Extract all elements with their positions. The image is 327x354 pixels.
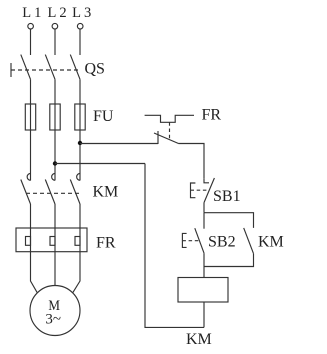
wire KM to FR pole 2 (54, 204, 56, 228)
wire KM aux to bottom junction (204, 254, 254, 267)
pushbutton SB1 fixed contact hook (204, 179, 209, 183)
wire junction to KM aux branch top (204, 213, 254, 228)
terminal L2 (52, 23, 58, 29)
wire FR to motor pole 1 (31, 228, 38, 293)
coil KM (178, 278, 228, 303)
thermal relay FR heater 3 (75, 237, 80, 246)
wire FU to KM pole 2 (54, 104, 56, 180)
wire FR contact to SB1 (179, 144, 205, 179)
svg-text:KM: KM (186, 331, 212, 348)
svg-text:L 2: L 2 (47, 5, 66, 21)
thermal relay FR contact blade (154, 133, 179, 144)
wire SB1 to junction (203, 203, 205, 213)
svg-text:L 1: L 1 (22, 5, 41, 21)
wire coil KM to bottom rail (203, 302, 205, 327)
svg-text:KM: KM (258, 234, 284, 251)
wire SB2 to bottom junction (203, 253, 205, 266)
wire QS to FU pole 2 (54, 79, 56, 104)
contactor KM main contact 1 arc (27, 173, 30, 180)
terminal L3 (77, 23, 83, 29)
svg-text:FR: FR (202, 107, 222, 124)
pushbutton SB2 actuator bracket (182, 233, 186, 247)
svg-text:L 3: L 3 (72, 5, 91, 21)
junction node on L3 feeding control circuit (78, 141, 82, 145)
svg-text:SB1: SB1 (213, 188, 241, 205)
wire control supply from L3 node to FR contact (80, 143, 158, 145)
wire QS to FU pole 1 (30, 79, 32, 104)
thermal relay FR control contact heater-notch symbol (145, 115, 194, 122)
switch QS pole 3 blade (70, 55, 80, 80)
contactor KM main contact 1 blade (21, 180, 31, 205)
wire FU to KM pole 3 (79, 104, 81, 180)
fuse FU pole 3 (75, 104, 85, 130)
motor M circle (30, 286, 80, 336)
wire bottom rail and left return (145, 164, 204, 328)
svg-text:FU: FU (93, 108, 114, 125)
contactor KM auxiliary contact blade (244, 228, 254, 254)
contactor KM main contact 3 blade (70, 180, 80, 205)
pushbutton SB1 actuator dashed link (191, 189, 210, 191)
svg-text:FR: FR (96, 235, 116, 252)
svg-text:KM: KM (93, 184, 119, 201)
wire L1 to QS (30, 29, 32, 55)
pushbutton SB1 blade (204, 178, 214, 203)
svg-text:QS: QS (85, 61, 105, 78)
thermal relay FR outer box (16, 228, 87, 252)
pushbutton SB2 blade (195, 228, 204, 253)
thermal relay FR control linkage dashed (169, 122, 171, 140)
wire FR to motor pole 2 (54, 228, 56, 286)
switch QS handle tick (10, 63, 12, 77)
wire junction to coil KM (203, 267, 205, 278)
terminal L1 (28, 23, 34, 29)
wire QS to FU pole 3 (79, 79, 81, 104)
contactor KM main contact 3 arc (77, 173, 80, 180)
wire L2 to QS (54, 29, 56, 55)
contactor KM main contact 2 arc (52, 173, 55, 180)
contactor KM linkage dashed line (26, 192, 82, 194)
svg-text:SB2: SB2 (208, 234, 236, 251)
contactor KM main contact 2 blade (45, 180, 55, 205)
thermal relay FR contact fixed tick (157, 131, 159, 144)
svg-text:3~: 3~ (45, 311, 61, 327)
wire L3 to QS (79, 29, 81, 55)
pushbutton SB2 actuator dashed link (182, 240, 199, 242)
wire control return from L2 node (55, 163, 145, 165)
wire junction down to SB2 (203, 213, 205, 229)
fuse FU pole 2 (50, 104, 60, 130)
fuse FU pole 1 (25, 104, 35, 130)
thermal relay FR heater 2 (50, 237, 55, 246)
wire FR to motor pole 3 (73, 228, 80, 293)
wire FU to KM pole 1 (30, 104, 32, 180)
pushbutton SB1 actuator bracket (191, 183, 196, 198)
wire KM to FR pole 3 (79, 204, 81, 228)
switch QS linkage dashed line (11, 69, 80, 71)
switch QS pole 1 blade (21, 55, 31, 80)
thermal relay FR heater 1 (26, 237, 31, 246)
junction node on L2 feeding control circuit (53, 161, 57, 165)
wire KM to FR pole 1 (30, 204, 32, 228)
switch QS pole 2 blade (45, 55, 55, 80)
